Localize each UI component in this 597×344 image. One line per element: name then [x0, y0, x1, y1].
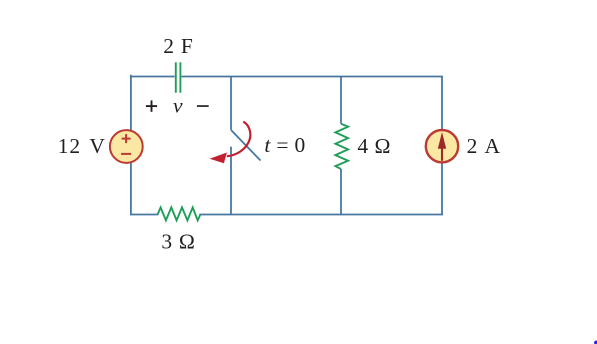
svg-text:v: v — [173, 94, 183, 118]
svg-text:3 Ω: 3 Ω — [161, 229, 195, 253]
svg-text:4 Ω: 4 Ω — [357, 134, 391, 158]
wire: top rail, left segment (left corner to capacitor left plate) — [131, 75, 174, 78]
resistor R1 4 ohm (vertical green zigzag) — [335, 124, 348, 169]
polarity label: + (capacitor voltage) — [146, 100, 157, 111]
wire: left branch, lower segment — [130, 163, 132, 215]
wire: right branch, upper segment — [441, 77, 443, 130]
svg-text:12 V: 12 V — [58, 134, 106, 158]
wire: 4-ohm branch, upper segment — [340, 77, 342, 124]
wire: bottom rail, right segment (3-ohm resistor to bottom-right corner) — [200, 214, 442, 216]
wire: switch branch, upper segment — [230, 77, 232, 130]
switch action arrow (red arc showing closing motion) — [210, 122, 251, 164]
wire: 4-ohm branch, lower segment — [340, 169, 342, 215]
svg-text:2 F: 2 F — [163, 34, 193, 58]
svg-text:t = 0: t = 0 — [264, 133, 305, 157]
current source I1 2A (circle with upward arrow) — [426, 130, 458, 162]
wire: bottom rail, left segment (corner to 3-ohm resistor) — [131, 214, 158, 216]
capacitor C1 2F (two green plates) — [176, 62, 181, 92]
svg-text:2 A: 2 A — [467, 134, 502, 158]
wire: right branch, lower segment — [441, 163, 443, 215]
voltage source V1 12V (circle with + over -) — [110, 130, 143, 163]
polarity label: &#8722; (capacitor voltage) — [197, 105, 209, 107]
switch S1 blade (open, angled down-right) — [231, 130, 261, 161]
resistor R2 3 ohm (horizontal green zigzag) — [158, 207, 201, 220]
wire: left branch, upper segment — [130, 77, 132, 131]
wire: top rail, right segment (capacitor right plate to top-right corner) — [182, 76, 442, 78]
wire: switch branch, lower segment — [230, 147, 232, 215]
